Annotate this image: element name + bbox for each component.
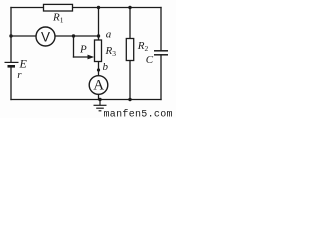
wire right upper [160,8,162,51]
wire left [10,8,12,63]
svg-text:V: V [41,29,50,44]
rheostat R3 [95,40,117,62]
svg-text:b: b [103,61,109,73]
resistor R1 [44,4,73,24]
wire wiper P horizontal [74,56,91,58]
capacitor C [154,51,168,55]
wire bottom [11,99,161,101]
wire R3 branch top [98,8,100,41]
battery E [5,62,19,66]
wire right lower [160,55,162,100]
wire voltmeter row [11,35,99,37]
wiper arrow of R3 [88,55,95,60]
wire wiper P vertical [73,36,75,57]
junction node on left wire [9,34,12,37]
svg-text:r: r [17,69,22,81]
junction node bottom R2 [128,98,131,101]
ammeter A [89,76,108,95]
svg-text:C: C [146,54,154,66]
wire left lower [10,67,12,100]
ground [94,100,107,111]
junction node b [97,68,100,71]
svg-text:manfen5.com: manfen5.com [104,109,173,119]
wire ammeter to bottom [98,94,100,100]
wire R2 branch bottom [129,61,131,100]
junction node wiper branch [72,34,75,37]
wire R2 branch top [129,8,131,39]
voltmeter V [36,27,55,46]
resistor R2 [126,39,148,61]
junction node top R2 [128,6,131,9]
junction node a [97,34,100,37]
junction node top R3 [97,6,100,9]
svg-text:P: P [79,44,87,56]
svg-text:a: a [106,29,112,41]
svg-text:A: A [93,78,104,94]
wire R3 to ammeter [98,62,100,77]
wire top [11,7,161,9]
junction node bottom ammeter [98,98,101,101]
